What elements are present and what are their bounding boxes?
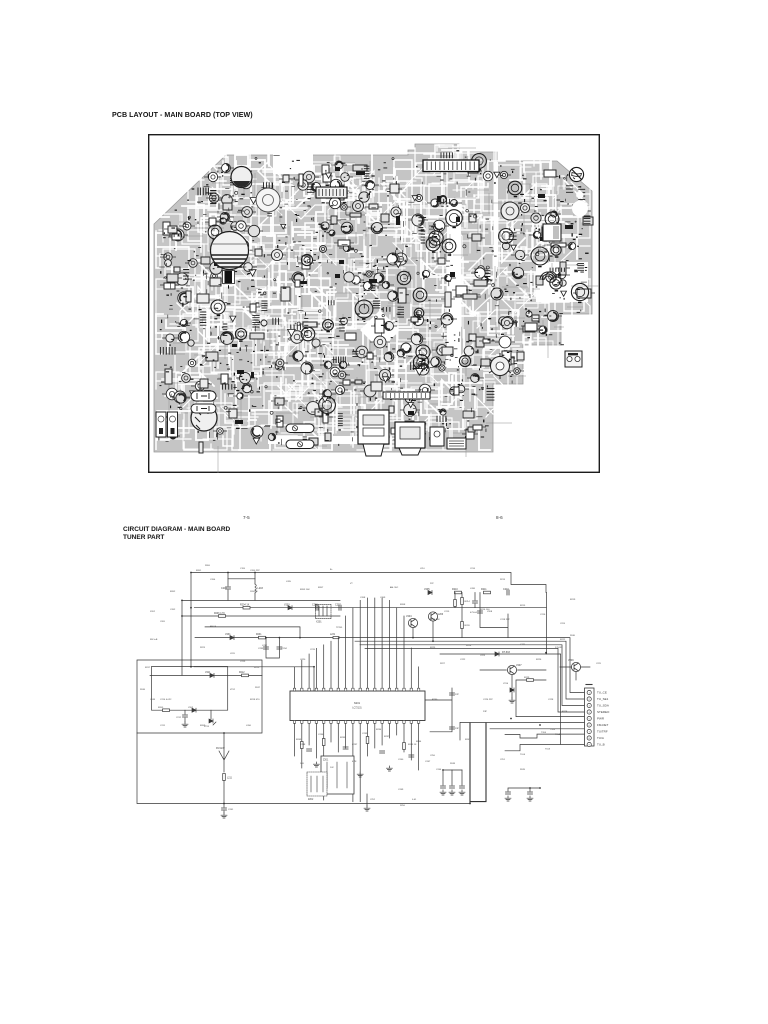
svg-text:R244: R244 <box>416 741 422 743</box>
svg-text:R207: R207 <box>318 587 324 589</box>
wire (bus 3 to TU_SDA) <box>360 645 585 706</box>
svg-text:LC72131: LC72131 <box>352 708 362 710</box>
svg-text:AM OSC: AM OSC <box>390 586 399 589</box>
svg-text:R250: R250 <box>400 805 406 807</box>
wire (AM row / bus 1 to TU_CE) <box>195 638 585 693</box>
svg-text:R214: R214 <box>465 601 471 603</box>
svg-text:V204: V204 <box>406 615 412 618</box>
svg-text:V209: V209 <box>568 659 574 662</box>
svg-text:C210: C210 <box>503 588 509 591</box>
mounting holes <box>576 191 583 198</box>
svg-text:R219: R219 <box>254 667 260 669</box>
svg-text:V206: V206 <box>438 613 444 616</box>
svg-text:C249: C249 <box>398 789 404 791</box>
svg-text:V202: V202 <box>188 707 194 709</box>
svg-text:R246: R246 <box>140 689 146 691</box>
capacitor C232 (vert) <box>380 751 385 753</box>
svg-text:R211: R211 <box>481 588 487 591</box>
connector pin 1 TU_CE <box>587 690 591 694</box>
capacitor C201 <box>227 579 229 586</box>
svg-text:V210: V210 <box>503 683 509 685</box>
wire (TU/A line) <box>505 734 585 738</box>
svg-text:V203: V203 <box>284 604 290 607</box>
svg-text:C199: C199 <box>240 568 246 570</box>
svg-text:TU-B: TU-B <box>545 749 551 751</box>
svg-text:C238: C238 <box>300 744 306 746</box>
trace edge detail <box>162 148 599 473</box>
svg-text:R249: R249 <box>520 769 526 771</box>
svg-text:C212: C212 <box>176 717 182 719</box>
wire (LC tank top) <box>228 573 255 579</box>
svg-text:C248: C248 <box>150 699 156 701</box>
transistor V206 <box>428 612 437 621</box>
svg-text:T204: T204 <box>550 729 556 731</box>
svg-text:L231: L231 <box>330 634 336 636</box>
svg-text:C213: C213 <box>240 661 246 663</box>
svg-text:R230: R230 <box>432 699 438 701</box>
svg-text:R217: R217 <box>145 667 151 669</box>
wire (TU_B line) <box>505 593 585 751</box>
svg-text:R206 4.7K: R206 4.7K <box>214 613 225 615</box>
svg-text:R228: R228 <box>562 711 568 713</box>
wire (top rail) <box>191 573 546 593</box>
wire (x480 branch) <box>480 593 508 638</box>
varactor V213 <box>210 710 212 719</box>
ground (module) <box>366 794 368 806</box>
ring components <box>208 154 588 416</box>
coil with core (centre-right) <box>501 202 519 220</box>
svg-text:C208: C208 <box>360 597 366 599</box>
X201 ceramic filter (dashed) <box>315 604 331 618</box>
svg-text:B+: B+ <box>330 569 333 571</box>
ground (right caps) <box>508 788 540 791</box>
schematic: tuner part <box>120 545 740 845</box>
svg-text:R215: R215 <box>520 605 526 607</box>
svg-text:C237: C237 <box>352 744 358 746</box>
capacitor C252 <box>529 788 531 791</box>
svg-text:R241: R241 <box>465 739 471 741</box>
resistor R204 <box>243 606 250 609</box>
capacitor (pale circle) <box>256 188 280 212</box>
half-toroid choke <box>540 272 556 280</box>
PCB board outline (ground plane) <box>154 144 592 452</box>
svg-text:0.01: 0.01 <box>412 799 417 801</box>
svg-text:FM-DET: FM-DET <box>597 723 608 727</box>
PCB figure frame <box>149 135 600 473</box>
svg-text:R220: R220 <box>465 625 471 627</box>
svg-text:1SS133: 1SS133 <box>250 591 258 593</box>
wire (row 3) <box>182 615 340 617</box>
fuse link F2 <box>286 440 314 449</box>
wire (V211 row) <box>150 674 262 676</box>
svg-text:R202: R202 <box>170 591 176 593</box>
resistor R211 <box>484 591 491 594</box>
connector pin 7 TU/TRF <box>587 729 591 733</box>
svg-text:VT: VT <box>350 583 353 585</box>
wire (row mid) <box>194 667 314 691</box>
header strip (bottom-centre) <box>383 392 430 399</box>
transistor V207 <box>507 665 516 674</box>
svg-text:R235: R235 <box>340 737 346 739</box>
svg-text:R219: R219 <box>570 599 576 601</box>
title: CIRCUIT DIAGRAM <box>123 526 230 543</box>
svg-text:TU_B: TU_B <box>597 743 605 747</box>
svg-text:TU_CE: TU_CE <box>597 691 607 695</box>
svg-text:TU-B: TU-B <box>520 754 526 756</box>
diode V205 <box>428 591 432 595</box>
svg-text:C241: C241 <box>228 809 234 811</box>
ceramic filter Z202 (dashed) <box>307 772 327 796</box>
coil L (pill component) <box>191 391 216 401</box>
svg-text:FM ANT: FM ANT <box>216 747 225 750</box>
svg-text:L203: L203 <box>258 587 264 590</box>
svg-text:L205: L205 <box>286 581 292 583</box>
capacitor C217 <box>478 611 483 613</box>
capacitor C227 23P <box>450 727 455 729</box>
capacitor C235 (vert) <box>409 755 414 757</box>
capacitor C210 <box>507 590 509 595</box>
connector pin 2 TU_SE1 <box>587 697 591 701</box>
capacitor C226 22P <box>450 693 455 695</box>
resistor R205 (inner box bottom) <box>163 709 170 712</box>
svg-text:C224: C224 <box>560 623 566 625</box>
svg-text:V212: V212 <box>230 689 236 691</box>
wire (left vertical rail) <box>190 573 192 667</box>
pin row footprints <box>160 152 590 441</box>
svg-text:C251: C251 <box>500 759 506 761</box>
svg-text:L232: L232 <box>262 645 268 647</box>
resistor R214 (vert) <box>461 598 464 605</box>
relay (white box right) <box>543 224 561 241</box>
svg-text:TP201: TP201 <box>336 627 343 629</box>
resistor R233 (vert) <box>322 739 325 746</box>
svg-text:C244: C244 <box>436 769 442 771</box>
diode footprints <box>190 172 567 444</box>
svg-text:L233: L233 <box>230 653 235 655</box>
svg-text:DT-633: DT-633 <box>555 647 563 649</box>
no-soldering icon (top-right) <box>569 167 583 181</box>
svg-text:C216: C216 <box>540 614 546 616</box>
title: PCB LAYOUT - MAIN BOARD (TOP VIEW) <box>112 111 253 119</box>
connector block (bottom-left pair) <box>156 412 178 437</box>
electrolytic capacitor (bottom-left, large) <box>191 405 217 431</box>
connector (left of centre) <box>316 187 347 198</box>
svg-text:C226 22P: C226 22P <box>483 699 493 701</box>
resistor R213 (vert) <box>454 593 456 601</box>
copper trace texture <box>156 145 590 450</box>
connector pin 3 TU_SDA <box>587 703 591 707</box>
headphone jack (bottom) <box>358 410 389 456</box>
connector CN201 <box>585 688 595 746</box>
svg-text:R212: R212 <box>239 672 245 674</box>
left block outline <box>137 660 262 733</box>
svg-text:V231: V231 <box>225 633 231 636</box>
svg-text:R247: R247 <box>255 687 261 689</box>
svg-text:C215: C215 <box>444 611 450 613</box>
wire (bus 2 to TU_SE1) <box>355 641 585 699</box>
svg-text:R222: R222 <box>560 639 566 641</box>
wire (second left rail) <box>181 600 183 675</box>
svg-text:T204: T204 <box>541 732 547 734</box>
svg-text:22P: 22P <box>455 694 459 696</box>
diode V211 <box>210 673 214 677</box>
svg-text:X201: X201 <box>316 621 322 624</box>
capacitor C207 <box>339 605 341 610</box>
wire (bus 4 to STEREO) <box>365 648 585 712</box>
svg-text:STEREO: STEREO <box>597 710 610 714</box>
IC bottom pin wires <box>295 723 419 801</box>
capacitor C231 (vert) <box>343 747 348 749</box>
svg-text:R210: R210 <box>452 588 458 591</box>
IF module Z201 <box>321 756 354 794</box>
fine silkscreen detail <box>159 156 587 454</box>
svg-text:TU/TRF: TU/TRF <box>597 730 608 734</box>
IC N201 tuner/radio IC <box>290 691 425 721</box>
ground IC pins <box>313 762 319 767</box>
wire (x462 branch) <box>461 593 463 638</box>
wire (caps at IC right) <box>425 688 452 732</box>
svg-text:R213: R213 <box>500 579 506 581</box>
page number 8-6 <box>496 515 503 520</box>
svg-text:R231: R231 <box>256 634 262 636</box>
varicap sub-block verticals <box>266 638 279 658</box>
resistor R231 <box>259 636 266 639</box>
wire (PWR line) <box>516 680 585 717</box>
svg-text:R225: R225 <box>430 647 436 649</box>
resistor R236 (vert) <box>366 737 369 744</box>
svg-text:R205: R205 <box>158 707 164 709</box>
connector pin 4 STEREO <box>587 710 591 714</box>
svg-text:R229: R229 <box>524 677 530 679</box>
tuning sub-block (inner box) <box>152 667 228 711</box>
resistor R212 <box>242 674 249 677</box>
diode DT-633 <box>495 652 499 656</box>
zener diode V210 <box>510 688 514 692</box>
svg-text:R237: R237 <box>384 736 390 738</box>
svg-text:R223: R223 <box>200 647 206 649</box>
wire (FM-DET line) <box>460 722 585 740</box>
PCB layout figure <box>148 134 600 473</box>
resistor R210 <box>455 591 462 594</box>
DC jack (bottom) <box>395 422 425 455</box>
svg-text:N201: N201 <box>354 701 361 705</box>
wire (FM band row) <box>205 627 300 638</box>
svg-text:X202: X202 <box>150 611 156 613</box>
svg-text:C233: C233 <box>258 648 264 650</box>
svg-text:R240: R240 <box>570 635 576 637</box>
wire (bottom left rail) <box>137 733 470 804</box>
node dots <box>190 572 192 574</box>
svg-text:C205: C205 <box>160 621 166 623</box>
svg-text:C221: C221 <box>520 644 526 646</box>
svg-text:V208: V208 <box>487 611 493 613</box>
svg-text:C222: C222 <box>460 659 466 661</box>
page number 7-5 <box>243 515 250 520</box>
svg-text:V211: V211 <box>205 671 211 674</box>
connector pin 6 FM-DET <box>587 723 591 727</box>
svg-text:C218 22P: C218 22P <box>500 619 510 621</box>
connector pin 5 PWR <box>587 716 591 720</box>
capacitor C230 (vert) <box>307 749 312 751</box>
svg-text:DT-633: DT-633 <box>502 651 511 654</box>
svg-text:C240: C240 <box>398 759 404 761</box>
toroid coil (bottom centre-right) <box>489 353 511 379</box>
svg-text:L208: L208 <box>470 588 476 590</box>
svg-text:R218 470: R218 470 <box>250 699 260 701</box>
connector pin 9 TU_B <box>587 742 591 746</box>
svg-text:L206: L206 <box>246 725 252 727</box>
resistor R206 <box>219 615 226 618</box>
svg-text:R248: R248 <box>450 763 456 765</box>
svg-text:R221 56K: R221 56K <box>430 619 440 621</box>
capacitor C233 <box>264 647 269 649</box>
capacitor C241 + ground <box>223 804 225 808</box>
svg-text:C214 0.022: C214 0.022 <box>160 699 172 701</box>
svg-text:TU/A: TU/A <box>597 736 604 740</box>
switch (bottom) <box>447 438 466 449</box>
resistor R238 (vert) <box>403 743 406 750</box>
svg-text:TU_SDA: TU_SDA <box>597 704 609 708</box>
capacitor C245 <box>451 770 453 785</box>
svg-text:C225: C225 <box>596 663 602 665</box>
svg-text:C207: C207 <box>335 604 341 607</box>
coil L (pill component 2) <box>191 404 216 413</box>
large electrolytic capacitor C (top-left) <box>211 232 249 270</box>
svg-text:C228: C228 <box>548 699 554 701</box>
svg-text:V207: V207 <box>516 664 522 667</box>
inductor L211 <box>223 774 226 781</box>
svg-text:C239: C239 <box>362 733 368 735</box>
FM antenna <box>219 733 229 772</box>
component cluster scatter <box>159 150 596 453</box>
svg-text:Z202: Z202 <box>308 799 314 801</box>
svg-text:C223: C223 <box>480 655 486 657</box>
black component bar under capacitor <box>223 271 235 284</box>
svg-text:23P: 23P <box>455 728 459 730</box>
svg-text:C234: C234 <box>282 648 288 650</box>
routed white regions <box>268 150 588 444</box>
diode V202 (inner box bottom) <box>192 708 196 712</box>
wire (TU/TRF line) <box>490 728 585 730</box>
coil L201 <box>254 579 256 584</box>
connector pin 8 TU/A <box>587 736 591 740</box>
wire (det row) <box>440 653 547 655</box>
svg-text:4.7K: 4.7K <box>352 761 357 763</box>
svg-text:C214: C214 <box>470 568 476 570</box>
svg-text:C202: C202 <box>170 609 176 611</box>
svg-text:C201: C201 <box>221 587 227 590</box>
svg-text:C252: C252 <box>370 799 376 801</box>
wire (row B+) <box>182 599 340 601</box>
svg-text:C204: C204 <box>210 579 216 581</box>
capacitor C212 (vert) <box>474 593 476 601</box>
capacitor C246 <box>461 770 463 785</box>
svg-text:R204 1K: R204 1K <box>240 604 250 607</box>
wire (vertical bus pair) <box>470 723 486 803</box>
svg-text:C220: C220 <box>300 659 306 661</box>
svg-text:R234: R234 <box>376 729 382 731</box>
svg-text:V205: V205 <box>424 588 430 591</box>
svg-text:Z201: Z201 <box>323 760 329 762</box>
svg-text:L211: L211 <box>227 778 233 780</box>
capacitor C244 <box>442 770 444 785</box>
transistor V204 <box>408 618 417 627</box>
small jack (bottom) <box>430 427 444 446</box>
svg-text:23P: 23P <box>483 711 487 713</box>
svg-text:R227: R227 <box>440 663 446 665</box>
inductor L231 <box>333 637 339 639</box>
svg-text:C236: C236 <box>318 734 324 736</box>
diode V203 <box>288 606 292 610</box>
resistor R232 (vert) <box>301 742 304 749</box>
connector CN (long, top-centre) <box>423 160 479 172</box>
svg-text:C211: C211 <box>160 725 166 727</box>
svg-text:103: 103 <box>300 763 304 765</box>
resistor R220 (vert) <box>461 622 464 629</box>
svg-text:TU-A: TU-A <box>555 733 561 736</box>
svg-text:C247: C247 <box>425 761 431 763</box>
svg-text:R226: R226 <box>536 659 542 661</box>
svg-text:C219: C219 <box>310 649 316 651</box>
svg-text:R209: R209 <box>200 725 206 727</box>
wire (row 2) <box>194 607 546 609</box>
svg-text:C250: C250 <box>430 755 436 757</box>
transistor V209 <box>571 662 580 671</box>
svg-text:R243 1K: R243 1K <box>408 744 417 746</box>
svg-text:R208: R208 <box>400 604 406 606</box>
resistor R229 <box>527 679 534 682</box>
svg-text:473-04: 473-04 <box>470 612 478 614</box>
component on white area (right) <box>565 351 582 367</box>
svg-text:TU_SE1: TU_SE1 <box>597 697 609 701</box>
diode V231 <box>230 636 234 640</box>
capacitor C234 <box>277 647 282 649</box>
svg-text:R200: R200 <box>205 565 211 567</box>
svg-text:FB LB: FB LB <box>210 626 217 628</box>
svg-text:R245: R245 <box>296 739 302 741</box>
IC pin boxes <box>293 688 295 691</box>
electrolytic capacitor (top) <box>231 167 252 188</box>
capacitor C212 + ground (left block) <box>184 710 186 714</box>
fuse link F1 <box>286 424 314 433</box>
capacitor C206 <box>316 605 318 610</box>
svg-text:FB 1uB: FB 1uB <box>150 639 158 641</box>
svg-text:PWR: PWR <box>597 717 605 721</box>
svg-text:R201: R201 <box>196 570 202 572</box>
IC top pin wires <box>295 598 419 688</box>
svg-text:L210: L210 <box>420 568 425 570</box>
svg-text:R203 10K: R203 10K <box>300 589 310 591</box>
svg-text:R224: R224 <box>466 645 472 647</box>
svg-text:22P: 22P <box>430 583 434 585</box>
svg-text:C209: C209 <box>380 597 386 599</box>
